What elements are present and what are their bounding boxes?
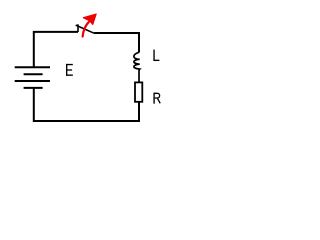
red arrow shaft (switch motion): [83, 21, 90, 37]
red arrowhead: [83, 14, 96, 25]
switch contact post (tick): [77, 24, 79, 32]
inductor L coil: [134, 52, 140, 82]
wire: top-left horizontal and left vertical down to battery top plate: [34, 32, 78, 67]
switch blade: [76, 25, 94, 33]
wire: left vertical below battery, bottom horizontal, right vertical up to resistor: [34, 88, 139, 121]
wire: top-right horizontal and right vertical down to inductor: [94, 33, 139, 52]
label R: [154, 93, 160, 104]
label E: [66, 64, 73, 76]
battery E: upper short plate: [24, 73, 43, 75]
resistor R box: [135, 82, 142, 101]
label L: [153, 50, 159, 61]
battery E: bottom short plate: [24, 87, 43, 89]
battery E: lower long plate: [15, 80, 50, 82]
battery E: top long plate: [15, 66, 50, 68]
